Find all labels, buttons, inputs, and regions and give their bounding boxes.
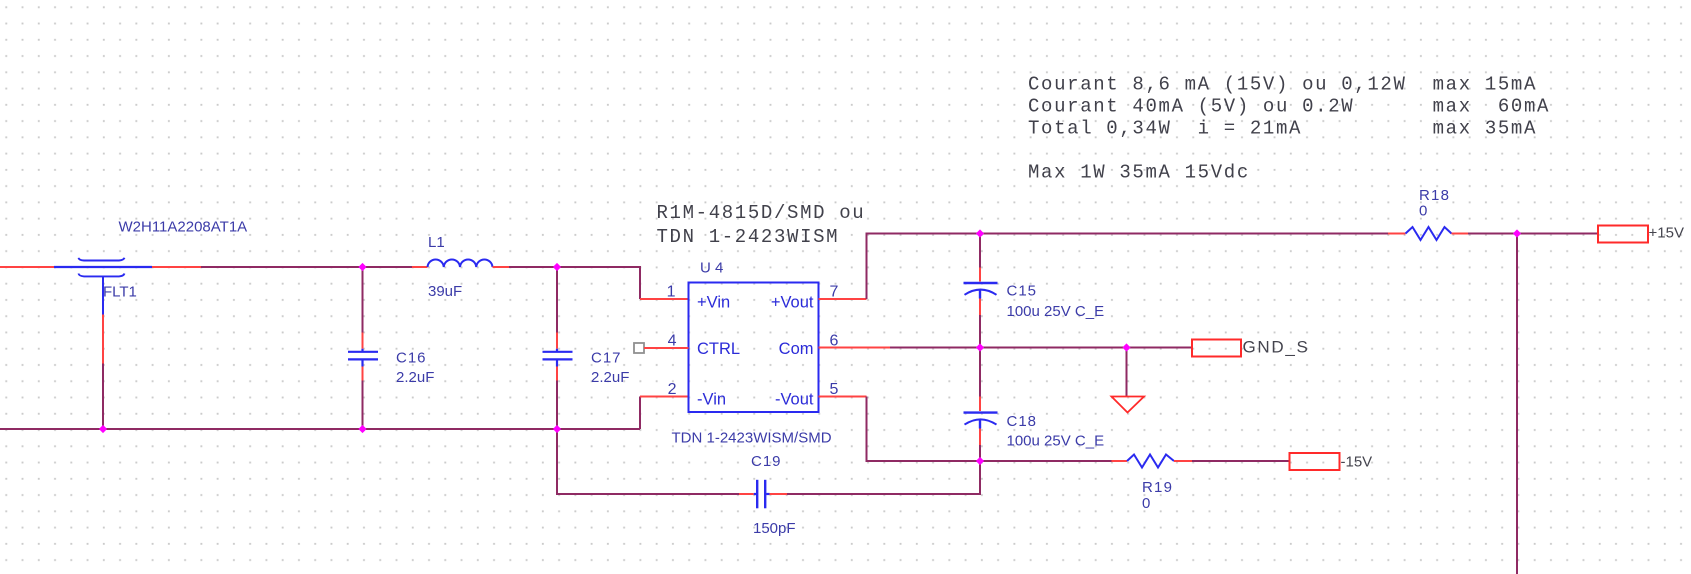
- svg-text:100u 25V C_E: 100u 25V C_E: [1007, 433, 1105, 450]
- junction C18-bottom: [976, 457, 984, 465]
- capacitor C16 bottom wire: [362, 381, 364, 431]
- U4 pin 2 stub: [640, 396, 689, 398]
- filter FLT1 ground leg blue: [102, 276, 104, 314]
- svg-text:4: 4: [668, 333, 677, 350]
- capacitor C16 plates: [348, 351, 378, 353]
- capacitor C15 top pin: [979, 268, 981, 282]
- U4 pin 7 stub: [819, 298, 867, 300]
- wire C19 right to riser: [787, 461, 980, 494]
- wire C19 left drop: [557, 429, 739, 494]
- svg-text:W2H11A2208AT1A: W2H11A2208AT1A: [119, 219, 248, 236]
- filter FLT1 top shield bracket: [79, 258, 125, 261]
- junction C17-top: [553, 263, 561, 271]
- svg-text:FLT1: FLT1: [103, 284, 137, 301]
- junction ground-drop: [1122, 343, 1130, 351]
- capacitor C15 top plate: [964, 282, 998, 284]
- resistor R18 left pin: [1388, 233, 1406, 235]
- svg-text:U 4: U 4: [700, 260, 723, 277]
- junction +15V riser: [1513, 229, 1521, 237]
- svg-text:1: 1: [667, 284, 676, 301]
- capacitor C18 bottom wire: [979, 445, 981, 461]
- wire ground drop: [1126, 348, 1128, 397]
- capacitor C16 top pin: [362, 333, 364, 349]
- wire red after FLT1: [152, 266, 201, 268]
- capacitor C18 bottom stub blue: [979, 419, 981, 429]
- svg-text:C16: C16: [396, 350, 427, 367]
- svg-text:-Vout: -Vout: [775, 391, 814, 409]
- U4 pin 6 stub: [819, 347, 891, 349]
- resistor R19: [1127, 455, 1174, 468]
- capacitor C19 left pin: [739, 493, 754, 495]
- svg-text:Courant 8,6 mA (15V) ou 0,12W: Courant 8,6 mA (15V) ou 0,12W max 15mA: [1028, 74, 1537, 96]
- junction C17-bus: [553, 425, 561, 433]
- capacitor C16 bottom pin: [361, 360, 363, 366]
- svg-text:R1M-4815D/SMD ou: R1M-4815D/SMD ou: [657, 202, 866, 224]
- capacitor C16 top wire: [362, 267, 364, 333]
- svg-text:Total 0,34W i = 21mA: Total 0,34W i = 21mA max 35mA: [1028, 118, 1537, 140]
- power symbol GND_S: [1192, 340, 1241, 357]
- wire top rail to L1: [201, 266, 412, 268]
- capacitor C17 plates: [543, 351, 573, 353]
- junction C16-bus: [358, 425, 366, 433]
- filter FLT1 ground leg red: [102, 315, 104, 364]
- svg-text:39uF: 39uF: [428, 283, 462, 300]
- capacitor C18 top wire: [979, 348, 981, 397]
- wire R19 to -15V: [1192, 460, 1290, 462]
- resistor R19 right pin: [1174, 460, 1192, 462]
- U4 pin 1 stub: [640, 298, 689, 300]
- capacitor C17 top pin: [556, 333, 558, 349]
- junction C15-top: [976, 229, 984, 237]
- capacitor C19 right pin: [766, 493, 769, 495]
- capacitor C15 top wire: [979, 234, 981, 268]
- svg-text:-15V: -15V: [1341, 454, 1373, 471]
- wire R18 to +15V: [1468, 233, 1598, 235]
- svg-text:+Vout: +Vout: [771, 294, 814, 312]
- capacitor C18 bottom pin: [979, 429, 981, 446]
- svg-text:C17: C17: [591, 350, 622, 367]
- resistor R18 right pin: [1452, 233, 1469, 235]
- junction C15-com: [976, 343, 984, 351]
- svg-text:0: 0: [1419, 203, 1427, 220]
- capacitor C15 bottom pin: [979, 299, 981, 316]
- capacitor C19 plates: [756, 480, 758, 509]
- resistor R19 left pin: [1112, 460, 1128, 462]
- power symbol +15V: [1598, 226, 1648, 243]
- ground symbol: [1112, 397, 1145, 413]
- svg-text:R18: R18: [1419, 187, 1450, 204]
- capacitor C18 curved plate: [965, 419, 997, 424]
- wire +15V down riser: [1516, 234, 1518, 574]
- capacitor C18 top plate: [964, 411, 998, 413]
- unconnected pin marker CTRL: [634, 343, 644, 353]
- svg-text:C15: C15: [1007, 283, 1038, 300]
- svg-text:R19: R19: [1142, 479, 1173, 496]
- svg-text:2.2uF: 2.2uF: [591, 369, 629, 386]
- svg-text:150pF: 150pF: [753, 520, 796, 537]
- svg-text:Max 1W 35mA 15Vdc: Max 1W 35mA 15Vdc: [1028, 162, 1250, 184]
- wire top rail L1 to U4 corner: [509, 267, 640, 299]
- svg-text:2: 2: [668, 381, 677, 398]
- wire +Vout riser: [867, 234, 1389, 300]
- wire bottom bus: [0, 428, 640, 430]
- svg-text:TDN 1-2423WISM: TDN 1-2423WISM: [657, 226, 840, 248]
- svg-text:L1: L1: [428, 234, 445, 251]
- filter FLT1 bottom shield bracket: [79, 274, 125, 277]
- junction FLT1-bus: [99, 425, 107, 433]
- junction C16-top: [358, 263, 366, 271]
- svg-text:TDN 1-2423WISM/SMD: TDN 1-2423WISM/SMD: [672, 430, 832, 447]
- inductor L1 right pin: [493, 266, 510, 268]
- svg-text:0: 0: [1142, 495, 1150, 512]
- capacitor C15 bottom wire: [979, 315, 981, 348]
- wire Com rail: [890, 347, 1192, 349]
- svg-text:7: 7: [830, 284, 839, 301]
- svg-text:100u 25V C_E: 100u 25V C_E: [1007, 303, 1105, 320]
- capacitor C15 curved plate: [965, 290, 997, 295]
- power symbol -15V: [1290, 453, 1340, 470]
- svg-text:2.2uF: 2.2uF: [396, 369, 434, 386]
- svg-text:5: 5: [830, 381, 839, 398]
- wire input rail red segment left: [0, 266, 54, 268]
- svg-text:+Vin: +Vin: [697, 294, 730, 312]
- wire bus riser to pin 2: [639, 397, 641, 430]
- U4 pin 5 stub: [819, 396, 867, 398]
- svg-text:Courant 40mA (5V) ou 0.2W: Courant 40mA (5V) ou 0.2W max 60mA: [1028, 96, 1550, 118]
- resistor R18: [1406, 227, 1452, 240]
- svg-text:-Vin: -Vin: [697, 391, 726, 409]
- svg-text:GND_S: GND_S: [1243, 338, 1310, 357]
- capacitor C15 bottom stub blue: [979, 289, 981, 299]
- capacitor C18 top pin: [979, 397, 981, 412]
- svg-text:C19: C19: [751, 453, 782, 470]
- svg-text:C18: C18: [1007, 413, 1038, 430]
- wire -Vout rail: [867, 397, 1112, 462]
- svg-text:Com: Com: [779, 340, 814, 358]
- U4 pin 4 stub: [644, 347, 689, 349]
- filter FLT1 through-line: [54, 266, 152, 268]
- wire FLT1 leg to bus: [102, 364, 104, 431]
- svg-text:+15V: +15V: [1649, 225, 1684, 242]
- capacitor C17 bottom wire: [556, 381, 558, 431]
- capacitor C17 top wire: [556, 267, 558, 333]
- inductor L1 left pin: [412, 266, 428, 268]
- capacitor C17 bottom pin: [556, 360, 558, 366]
- svg-text:CTRL: CTRL: [697, 340, 740, 358]
- inductor L1: [428, 259, 493, 267]
- IC U4 body: [689, 283, 819, 413]
